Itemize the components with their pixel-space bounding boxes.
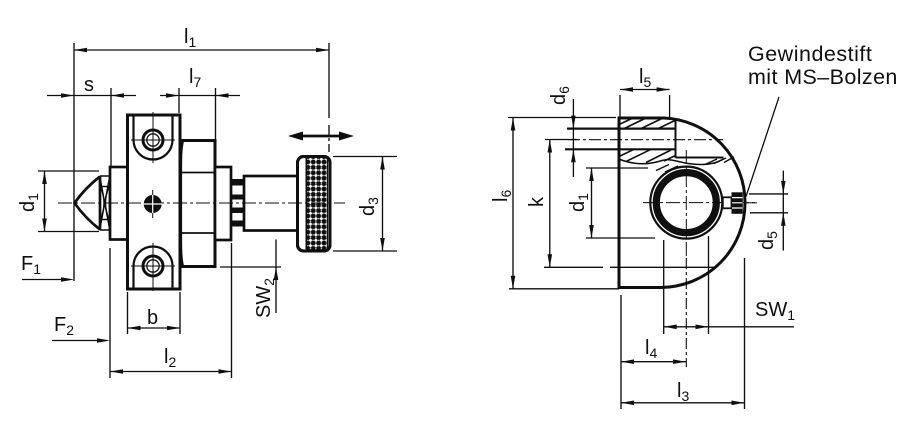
dimension d3	[333, 157, 397, 252]
cone point (plunger tip)	[75, 176, 101, 230]
section hatching upper band	[619, 118, 676, 129]
center pin hole (overdraw)	[144, 195, 163, 213]
cone base (ball end detail)	[100, 176, 110, 230]
svg-text:Gewindestift: Gewindestift	[748, 42, 872, 66]
dimension SW1	[664, 236, 794, 334]
dimension l1	[74, 43, 329, 281]
dimension b	[128, 292, 181, 334]
thread section (ribbed)	[232, 179, 245, 227]
rear collar	[215, 167, 231, 240]
section step edge	[676, 118, 724, 158]
dimension l7	[160, 88, 240, 139]
dimension l5	[620, 87, 670, 117]
dimension k	[545, 140, 577, 268]
leader line to set screw	[746, 97, 779, 197]
dimension l6	[508, 118, 619, 289]
centerline (left view axis)	[58, 202, 345, 204]
motion double arrow	[288, 132, 354, 141]
spindle	[244, 176, 299, 231]
dimension d1 (right view)	[586, 168, 655, 238]
screw centerline stub	[746, 202, 757, 204]
body outline (D-shape)	[619, 118, 745, 288]
dimension d5	[749, 171, 788, 251]
svg-text:b: b	[147, 307, 158, 329]
dimension d6	[571, 99, 576, 177]
section hatching lower band	[619, 149, 676, 162]
top mounting hole	[131, 112, 175, 163]
dimension s	[47, 88, 136, 166]
top mounting boss slot	[134, 116, 173, 160]
break (wavy) line	[620, 159, 724, 164]
hex body	[181, 141, 216, 267]
right view vertical centerline	[685, 150, 687, 258]
bottom mounting boss slot	[134, 247, 173, 289]
dimension F2	[52, 248, 110, 378]
plunger hole outer circle	[650, 167, 722, 239]
section hatching right patch	[705, 157, 734, 165]
section hatching above hole	[656, 165, 678, 173]
dimension SW2 leader	[220, 240, 281, 314]
set screw head (threaded)	[732, 192, 743, 214]
center pin hole	[144, 190, 163, 218]
dimension l2	[110, 243, 232, 378]
flange plate	[128, 115, 181, 289]
guide bushing collar	[110, 167, 128, 240]
svg-text:mit MS–Bolzen: mit MS–Bolzen	[748, 65, 898, 89]
dimension l4	[621, 295, 686, 409]
bottom mounting hole	[131, 243, 175, 291]
svg-text:k: k	[526, 196, 548, 207]
plunger hole ring	[656, 173, 716, 233]
knurled knob	[298, 157, 331, 252]
centerline extension to l4	[685, 258, 687, 367]
dimension F1	[22, 277, 74, 282]
dimension d1 (left view)	[38, 171, 99, 232]
svg-text:s: s	[84, 74, 94, 96]
set screw neck (MS-Bolzen)	[723, 197, 732, 208]
right view horizontal centerline	[643, 202, 757, 204]
hidden slot line	[544, 266, 716, 268]
dimension l3	[621, 258, 745, 409]
thread axis centerline	[568, 139, 723, 141]
threaded hole lines	[565, 129, 676, 150]
